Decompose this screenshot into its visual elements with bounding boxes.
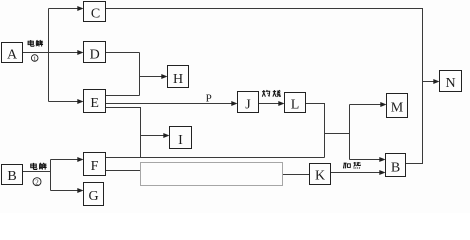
svg-text:C: C <box>91 7 100 22</box>
svg-text:E: E <box>90 96 99 111</box>
svg-text:2: 2 <box>35 178 39 186</box>
svg-text:I: I <box>178 133 183 148</box>
svg-text:L: L <box>291 98 300 113</box>
svg-text:1: 1 <box>33 55 36 62</box>
svg-text:K: K <box>315 169 325 184</box>
svg-text:F: F <box>91 159 99 174</box>
svg-text:N: N <box>445 76 455 91</box>
svg-text:J: J <box>245 98 251 113</box>
svg-text:A: A <box>7 48 18 63</box>
svg-text:G: G <box>88 189 98 204</box>
svg-text:D: D <box>90 48 100 63</box>
svg-text:B: B <box>7 169 16 184</box>
svg-text:P: P <box>206 93 212 105</box>
svg-text:H: H <box>173 72 183 87</box>
svg-text:B: B <box>391 161 400 176</box>
svg-text:M: M <box>391 101 404 116</box>
